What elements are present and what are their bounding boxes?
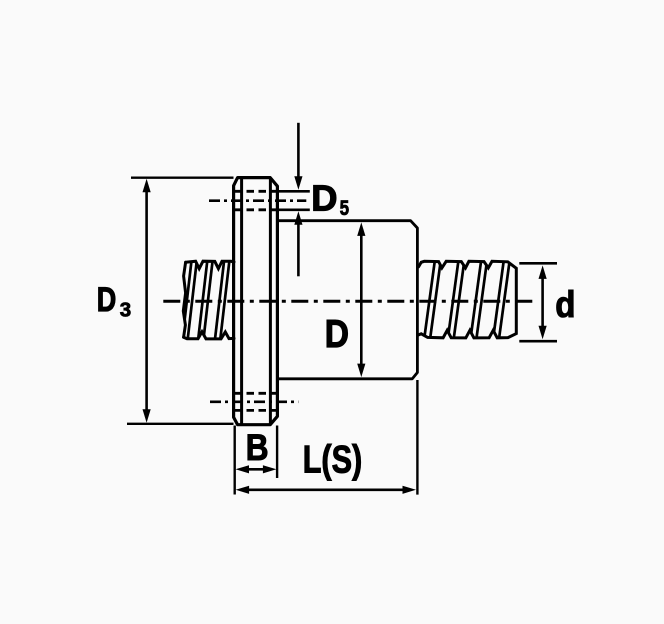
dimension B arrow (236, 465, 277, 473)
right screw shaft thread outline (419, 261, 517, 338)
dimension D arrow (357, 222, 365, 377)
svg-text:d: d (555, 283, 575, 325)
flange inner chamfer line left (240, 179, 243, 424)
main centerline (163, 300, 537, 303)
dimension LS arrow (236, 486, 416, 494)
flange inner chamfer line right (269, 179, 272, 424)
top bolt hole centerline (209, 199, 306, 202)
dimension d top extension line (519, 262, 557, 265)
bottom bolt hole centerline (210, 400, 298, 403)
svg-text:D: D (325, 313, 349, 356)
left thread flank lines (182, 259, 229, 340)
dimension D3 bottom extension line (127, 423, 234, 425)
svg-text:3: 3 (120, 299, 131, 322)
dimension D5 lower arrow (294, 211, 302, 276)
dimension D3 arrow (143, 179, 151, 423)
svg-text:D: D (97, 281, 117, 319)
flange outline (234, 178, 278, 425)
bottom bolt hole hidden edge upper (235, 392, 278, 395)
right thread flank lines (424, 258, 510, 341)
svg-text:5: 5 (340, 196, 350, 220)
left screw shaft thread outline (183, 261, 234, 339)
dimension LS right extension line (416, 380, 418, 495)
svg-text:L(S): L(S) (303, 438, 363, 481)
dimension B left extension line (233, 426, 235, 495)
top bolt hole extension line lower (279, 209, 310, 212)
top bolt hole hidden edge upper (235, 190, 278, 193)
svg-text:B: B (246, 427, 269, 468)
dimension D5 upper arrow (294, 123, 302, 190)
top bolt hole extension line upper (279, 190, 310, 193)
top bolt hole hidden edge lower (235, 208, 278, 211)
dimension D3 top extension line (131, 176, 234, 178)
bottom bolt hole hidden edge lower (235, 409, 278, 412)
dimension d arrow (539, 265, 547, 339)
nut body outline (278, 221, 418, 379)
svg-text:D: D (311, 177, 337, 218)
dimension B right extension line (276, 426, 278, 479)
dimension d bottom extension line (519, 340, 557, 343)
